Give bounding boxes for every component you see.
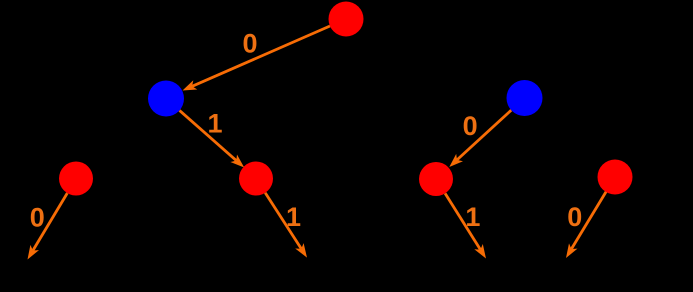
wire edge right-mid-red->leaf (445, 193, 486, 258)
node far-right red circle (598, 160, 633, 195)
node right-mid red circle (419, 162, 453, 196)
wire edge left-red->leaf (28, 193, 68, 259)
node mid red circle (239, 162, 273, 196)
svg-text:0: 0 (30, 203, 45, 233)
node right blue circle (507, 80, 543, 116)
wire edge root->left-blue (183, 26, 331, 91)
svg-text:0: 0 (463, 111, 478, 141)
wire edge far-right-red->leaf (566, 192, 606, 259)
svg-text:0: 0 (242, 29, 257, 59)
node left blue circle (148, 81, 184, 117)
svg-text:1: 1 (286, 202, 301, 232)
wire edge left-blue->red-child (180, 110, 245, 167)
node left red circle (59, 162, 93, 196)
node root red circle (329, 2, 364, 37)
wire edge mid-red->leaf (265, 193, 307, 258)
svg-text:1: 1 (465, 202, 480, 232)
svg-text:1: 1 (207, 109, 222, 139)
wire edge right-blue->red-child (449, 110, 511, 167)
svg-text:0: 0 (567, 202, 582, 232)
